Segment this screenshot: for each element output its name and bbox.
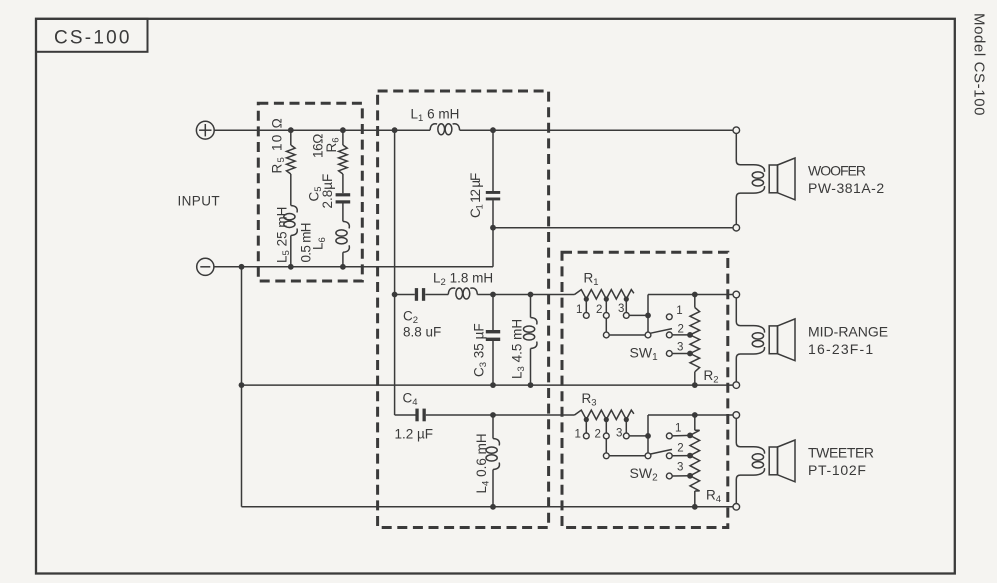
terminal - (input negative)	[197, 258, 214, 275]
svg-text:1.2 µF: 1.2 µF	[395, 427, 434, 442]
node: + rail / C1	[490, 127, 496, 133]
node: mid return / C3	[490, 382, 496, 388]
inductor L5 25mH	[290, 174, 292, 206]
wire tweeter return rail	[242, 506, 734, 508]
svg-text:2: 2	[678, 324, 684, 336]
wire mid return rail	[242, 384, 734, 386]
node: drop / mid return	[239, 382, 245, 388]
speaker terminal - (MID-RANGE)	[733, 382, 740, 389]
SW2 contacts 1,2,3	[666, 433, 672, 439]
node: mid return / R2	[692, 382, 698, 388]
node: + rail / feed to C2,C4	[392, 127, 398, 133]
dashed box: crossover filters	[378, 91, 549, 528]
resistor R3 (tapped)	[575, 410, 634, 419]
node: SW1 junction	[645, 313, 651, 319]
R3 tap circles 1,2,3	[583, 433, 589, 439]
resistor R4	[694, 415, 696, 430]
wire tweeter output line to speaker	[648, 414, 733, 416]
wire drop from - rail down to tweeter return	[241, 267, 243, 507]
wire L2 to R1	[477, 294, 574, 296]
capacitor C2 8.8uF	[395, 294, 415, 296]
pole circles SW2	[603, 453, 609, 459]
svg-text:TWEETER: TWEETER	[808, 444, 874, 460]
node: SW2 junction	[645, 433, 651, 439]
wire + rail from input to L1	[214, 129, 430, 131]
svg-text:2.8µF: 2.8µF	[320, 174, 335, 209]
capacitor C1 12uF	[492, 130, 494, 191]
svg-text:3: 3	[618, 303, 624, 315]
wire between poles SW1	[609, 334, 645, 336]
svg-text:L1 6 mH: L1 6 mH	[411, 107, 460, 125]
resistor R5 10 Ohm	[290, 130, 292, 145]
wire junction vertical to pole SW1	[647, 295, 649, 333]
dashed box: input network (R5,R6,C5,L5,L6)	[258, 103, 362, 281]
svg-text:16-23F-1: 16-23F-1	[808, 341, 874, 357]
R1 tap nodes and stubs	[584, 297, 589, 302]
svg-text:2: 2	[595, 429, 601, 441]
speaker terminal + (WOOFER)	[733, 127, 740, 134]
node: C1 / woofer return	[490, 225, 496, 231]
resistor R1 (tapped)	[575, 290, 634, 299]
node: output / R4 top	[692, 412, 698, 418]
dashed box: attenuator switches	[562, 252, 728, 527]
wire C4 to R3	[426, 414, 575, 416]
svg-text:1: 1	[575, 429, 581, 441]
svg-text:8.8 uF: 8.8 uF	[403, 325, 441, 340]
pole circles SW1	[603, 332, 609, 338]
wire - rail	[214, 266, 493, 268]
svg-text:PT-102F: PT-102F	[808, 462, 867, 478]
node: - rail / L5	[288, 264, 294, 270]
terminal + (input positive)	[196, 121, 214, 139]
svg-text:INPUT: INPUT	[178, 194, 221, 209]
wire contact2 to R2 tap	[672, 334, 690, 336]
svg-text:2: 2	[596, 304, 602, 316]
svg-text:Model CS-100: Model CS-100	[971, 13, 988, 116]
wire contact1 to R4 tap	[672, 434, 690, 437]
inductor L3 4.5mH	[530, 295, 532, 318]
node: mid chain / L3	[528, 292, 534, 298]
resistor R2	[694, 295, 696, 308]
inductor L2 1.8mH	[425, 294, 448, 296]
wire tap3 to junction	[629, 314, 648, 316]
node: mid return / L3	[528, 382, 534, 388]
resistor R6 16 Ohm	[342, 130, 344, 145]
svg-text:MID-RANGE: MID-RANGE	[808, 323, 888, 339]
svg-text:C3 35 µF: C3 35 µF	[472, 323, 490, 377]
speaker terminal + (MID-RANGE)	[733, 291, 740, 298]
wire feed from + rail to C2/C4	[394, 130, 396, 415]
node: - rail / drop wire	[239, 264, 245, 270]
svg-text:2: 2	[677, 443, 683, 455]
svg-text:1: 1	[676, 305, 682, 317]
speaker WOOFER driver	[769, 165, 777, 193]
R1 tap circles 1,2,3	[583, 313, 589, 319]
node: + rail / branch R6	[340, 127, 346, 133]
capacitor C4 1.2uF	[395, 414, 416, 416]
wire tap2 down to left pole SW2	[605, 439, 607, 453]
wire junction vertical to pole SW2	[647, 415, 649, 453]
node: tweeter return / L4	[490, 504, 496, 510]
node: output / R2 top	[692, 292, 698, 298]
speaker TWEETER voice coil	[736, 418, 764, 453]
speaker MID-RANGE driver	[769, 326, 777, 354]
wire tap3 to junction SW2	[629, 435, 648, 437]
wire woofer return	[493, 227, 733, 229]
speaker terminal - (WOOFER)	[733, 224, 740, 231]
wire contact3 to R4 tap	[672, 475, 690, 477]
svg-text:1: 1	[675, 423, 681, 435]
speaker TWEETER driver	[769, 447, 777, 475]
svg-text:CS-100: CS-100	[54, 28, 132, 49]
node: - rail / L6	[340, 264, 346, 270]
speaker WOOFER voice coil	[736, 134, 764, 172]
speaker MID-RANGE voice coil	[736, 298, 764, 333]
speaker terminal - (TWEETER)	[733, 504, 740, 511]
svg-text:1: 1	[576, 304, 582, 316]
capacitor C5 2.8uF	[342, 174, 344, 193]
svg-text:3: 3	[677, 342, 683, 354]
capacitor C3 35uF	[492, 295, 494, 331]
wire between poles SW2	[609, 455, 645, 457]
svg-text:3: 3	[616, 428, 622, 440]
title box CS-100	[36, 19, 148, 52]
wire contact2 to R4 tap	[672, 455, 690, 457]
wire mid output line to speaker	[648, 294, 733, 296]
R3 tap nodes and stubs	[584, 417, 589, 422]
wire tap2 down to left pole	[605, 318, 607, 332]
SW2 wiper arm	[651, 449, 672, 454]
node: tweeter return / R4	[692, 504, 698, 510]
inductor L6 0.5mH	[343, 221, 349, 228]
node: + rail / branch R5	[288, 127, 294, 133]
svg-text:R5 10 Ω: R5 10 Ω	[270, 117, 288, 173]
svg-text:PW-381A-2: PW-381A-2	[808, 180, 885, 196]
node: mid chain / C3	[490, 292, 496, 298]
svg-text:3: 3	[677, 462, 683, 474]
SW1 contacts 1,2,3	[666, 314, 672, 320]
node: tweeter chain / L4	[490, 412, 496, 418]
svg-text:C1 12 µF: C1 12 µF	[468, 173, 486, 218]
speaker terminal + (TWEETER)	[733, 412, 740, 419]
svg-text:WOOFER: WOOFER	[808, 162, 866, 178]
SW1 wiper arm	[651, 329, 672, 334]
inductor L4 0.6mH	[492, 415, 494, 439]
inductor L1 6mH	[430, 124, 437, 130]
wire L1 to woofer +	[460, 129, 733, 131]
wire contact3 to R2 tap	[672, 353, 690, 355]
node: feed / mid chain	[392, 292, 398, 298]
